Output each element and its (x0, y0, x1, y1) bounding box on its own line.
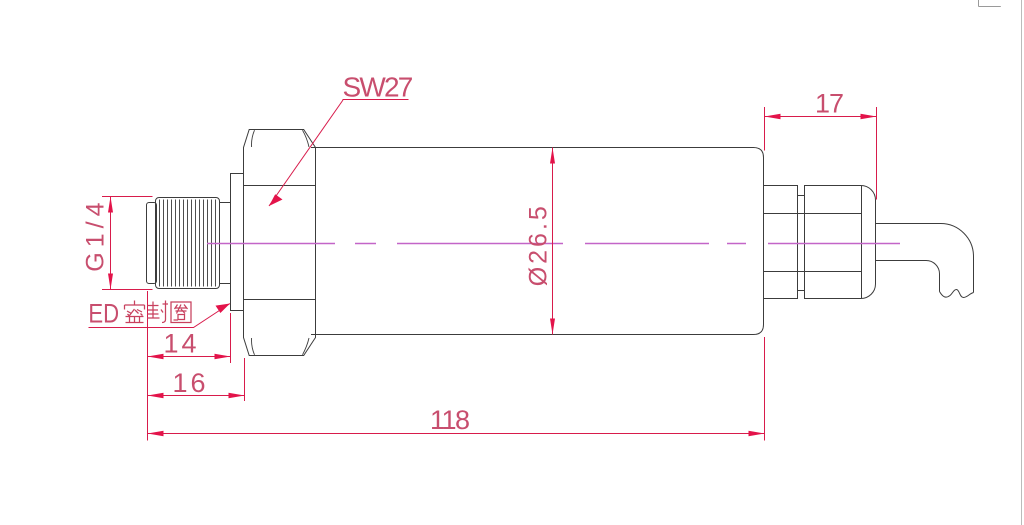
scrollbar corner mark (979, 0, 1001, 7)
threaded stub G1/4 outline (156, 198, 220, 289)
svg-text:17: 17 (815, 89, 843, 119)
dim 17 line (765, 116, 877, 118)
CJK glyph mi (seal) (125, 301, 145, 323)
dim G1/4 line (110, 197, 112, 290)
SW27 underline (343, 99, 409, 101)
gland cap separator (861, 186, 863, 299)
hex nut SW27 outline (244, 130, 316, 356)
arrow 118 left (148, 431, 164, 436)
label d26.5 (525, 203, 553, 286)
cable inner curve (876, 260, 940, 291)
dim d26.5 line (552, 148, 554, 335)
dim 14 line (148, 356, 231, 358)
dim G1/4 extension lines (102, 197, 153, 290)
CJK glyph quan (ring) (171, 302, 191, 323)
dim 17 extension lines (765, 107, 877, 200)
svg-text:16: 16 (173, 368, 209, 398)
dim 118 line (148, 433, 765, 435)
svg-text:118: 118 (430, 405, 469, 435)
arrow d26.5 bottom (550, 319, 555, 335)
thread crest hatch lines (160, 200, 216, 287)
ED leader underline (89, 304, 231, 328)
svg-text:ED: ED (88, 300, 119, 330)
cable outer curve (876, 224, 974, 293)
extension line x764 (764, 337, 766, 441)
arrow 14 right (215, 354, 231, 359)
extension line x244 (244, 358, 246, 401)
arrow 17 left (765, 114, 781, 119)
SW27 leader (269, 100, 343, 206)
dim 16 line (148, 395, 245, 397)
extension line x230 (230, 313, 232, 363)
extension line x147 (147, 291, 149, 441)
ED seal washer (231, 174, 244, 311)
label G1/4 (82, 197, 110, 271)
svg-text:14: 14 (164, 329, 200, 359)
arrow 17 right (861, 114, 877, 119)
cable break squiggle (940, 290, 974, 298)
arrow ED leader tip (216, 304, 231, 314)
hex face lines (244, 186, 316, 300)
window border right (1021, 0, 1023, 525)
arrow G1/4 top (108, 197, 113, 213)
main body Ø26.5 (311, 148, 764, 335)
neck between thread and seal (220, 203, 231, 284)
centerline (207, 243, 900, 245)
gland face lines (764, 214, 862, 272)
cable gland outline (764, 186, 876, 299)
arrow 118 right (749, 431, 765, 436)
gland section edges (798, 186, 805, 299)
arrow 14 left (148, 354, 164, 359)
arrow G1/4 bottom (108, 274, 113, 290)
thread collar (left) (147, 203, 157, 284)
svg-text:SW27: SW27 (343, 72, 413, 103)
CJK glyph feng (seal) (147, 301, 168, 323)
svg-text:Ø26.5: Ø26.5 (525, 203, 553, 286)
arrow SW27 leader tip (269, 194, 283, 206)
arrow 16 right (229, 393, 245, 398)
svg-text:G1/4: G1/4 (82, 197, 110, 271)
hex chamfer arcs (252, 130, 309, 355)
arrow d26.5 top (550, 148, 555, 164)
arrow 16 left (148, 393, 164, 398)
